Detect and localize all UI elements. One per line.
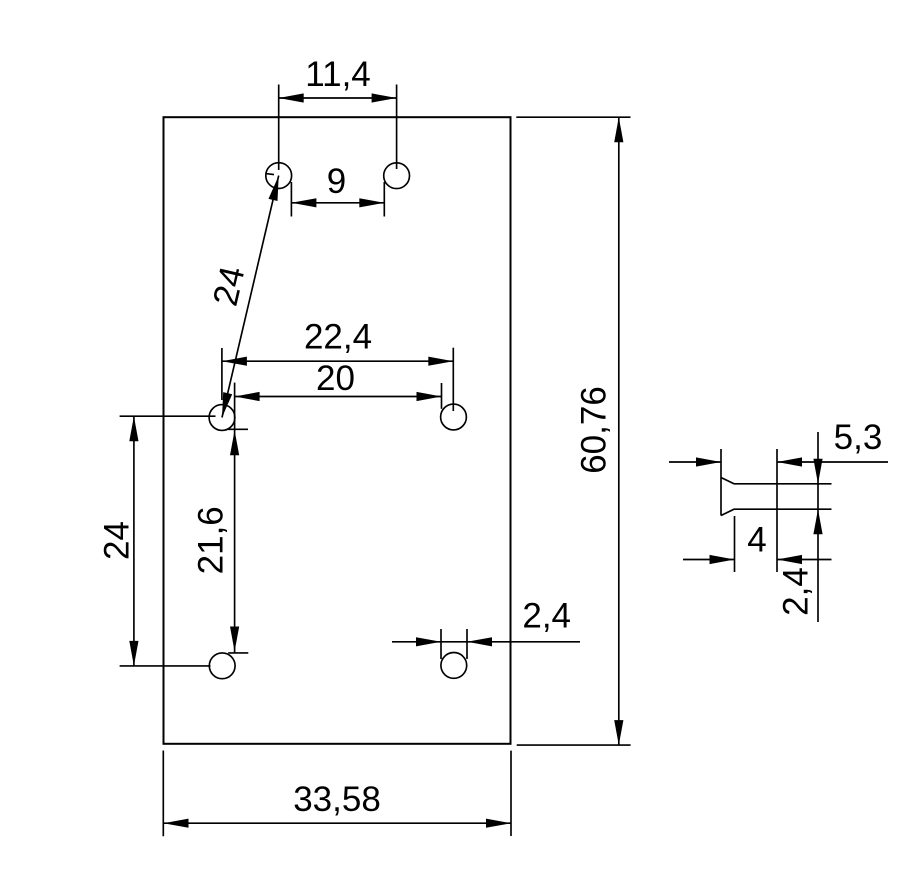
svg-text:20: 20 <box>316 359 355 398</box>
svg-text:2,4: 2,4 <box>777 567 816 616</box>
svg-text:5,3: 5,3 <box>834 418 883 457</box>
svg-text:2,4: 2,4 <box>522 597 571 636</box>
svg-text:11,4: 11,4 <box>305 55 371 94</box>
svg-text:9: 9 <box>327 162 346 201</box>
svg-text:22,4: 22,4 <box>304 318 372 357</box>
svg-text:24: 24 <box>98 521 137 560</box>
svg-text:60,76: 60,76 <box>575 386 614 474</box>
svg-text:33,58: 33,58 <box>293 780 381 819</box>
svg-text:21,6: 21,6 <box>192 506 231 574</box>
svg-text:4: 4 <box>747 520 766 559</box>
